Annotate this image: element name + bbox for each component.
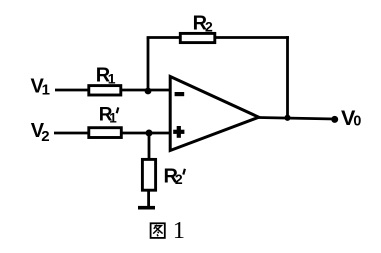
label R1 <box>96 64 116 86</box>
wire top left to R2 <box>147 36 180 39</box>
svg-text:1: 1 <box>173 217 185 244</box>
resistor R1' <box>89 128 122 138</box>
wire R2 to right corner <box>216 36 289 39</box>
label V2 <box>31 120 50 145</box>
prime mark of R2' <box>183 169 185 175</box>
node A (junction dot on minus input) <box>145 88 152 95</box>
node C (junction dot on output) <box>284 115 290 121</box>
op-amp minus sign <box>175 92 185 96</box>
output terminal dot <box>331 116 338 123</box>
resistor R2' <box>142 159 155 190</box>
label V0 <box>341 106 361 130</box>
node B (junction dot on plus input) <box>146 130 153 137</box>
wire feedback vertical left <box>147 38 150 91</box>
label R1' <box>99 105 118 126</box>
wire output <box>258 118 335 120</box>
label R2' <box>164 165 183 187</box>
wire V1 to R1 <box>55 89 89 92</box>
resistor R1 <box>89 86 121 95</box>
svg-text:2: 2 <box>205 18 213 34</box>
op-amp U1 <box>170 77 259 151</box>
svg-text:1: 1 <box>42 81 50 98</box>
wire R1 to op-amp minus input <box>122 89 170 92</box>
svg-text:2: 2 <box>41 128 49 145</box>
ground <box>138 206 155 210</box>
label R2 <box>193 12 213 34</box>
label V1 <box>31 75 50 98</box>
op-amp plus sign <box>173 126 184 138</box>
prime mark of R1' <box>117 107 119 113</box>
caption character 图 <box>151 223 165 238</box>
wire R2' to ground <box>147 190 150 208</box>
wire node B down to R2' <box>148 133 151 160</box>
svg-text:1: 1 <box>108 70 116 86</box>
wire V2 to R1' <box>54 132 89 135</box>
wire feedback vertical right <box>286 36 289 118</box>
resistor R2 <box>180 33 215 42</box>
wire R1' to op-amp plus input <box>123 132 171 135</box>
svg-text:2: 2 <box>175 171 183 187</box>
svg-text:0: 0 <box>353 114 361 130</box>
